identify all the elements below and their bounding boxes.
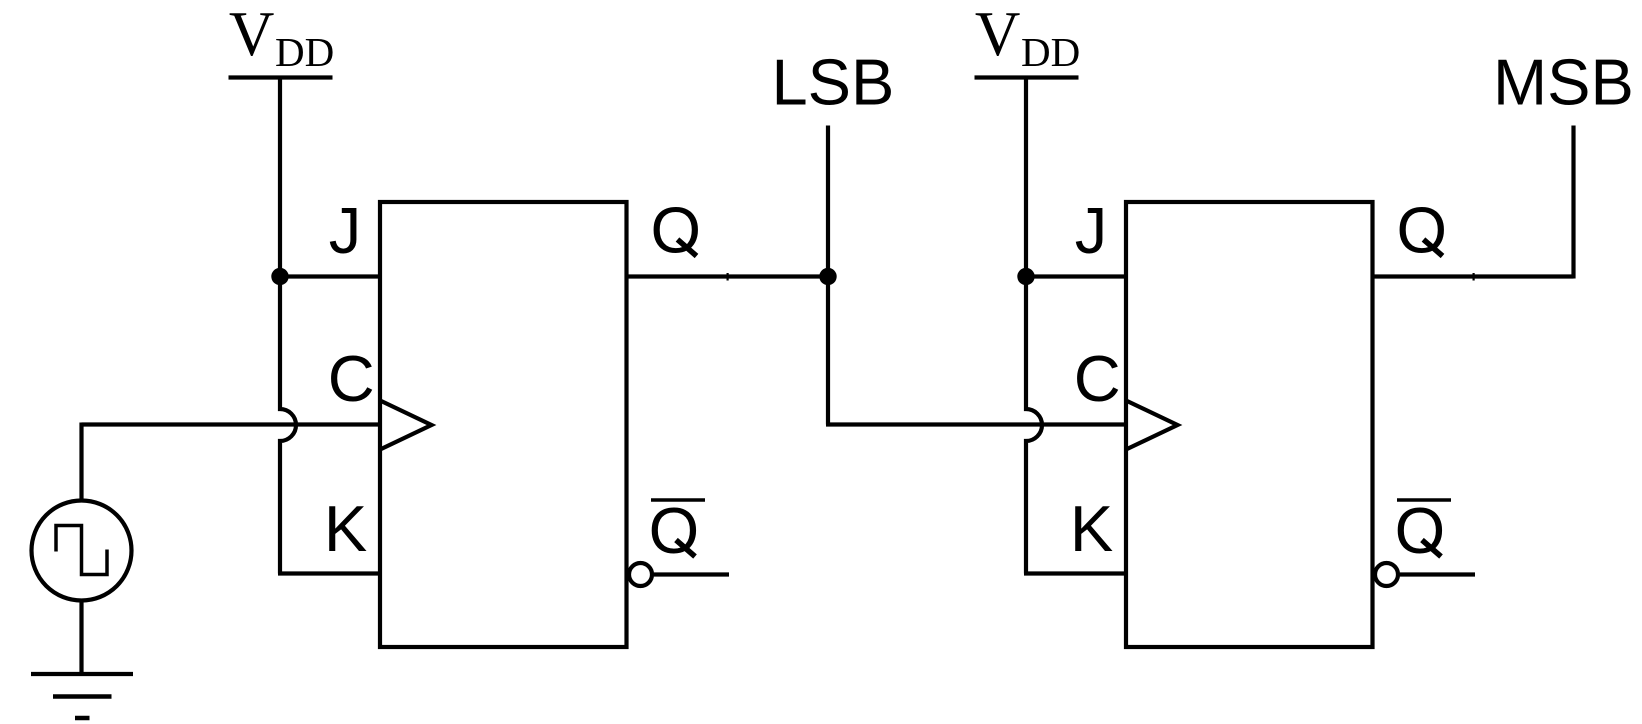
label Qbar (U2) (1395, 494, 1451, 567)
power symbol VDD1 bar (229, 75, 333, 79)
wire clock to U2 (826, 422, 1126, 426)
svg-text:V: V (229, 0, 275, 69)
power symbol VDD1 label (229, 0, 334, 75)
svg-text:K: K (1070, 492, 1113, 565)
svg-text:C: C (1074, 342, 1121, 415)
wire Qbar1 output stub (654, 572, 729, 576)
node B junction dot (J2 tie) (1017, 268, 1034, 285)
node A junction dot (J1 tie) (271, 268, 288, 285)
svg-text:J: J (1075, 194, 1108, 267)
wire K1 input (278, 571, 380, 575)
power symbol VDD2 bar (975, 75, 1079, 79)
wire VDD1 vertical to node A (278, 78, 282, 277)
svg-text:LSB: LSB (772, 46, 895, 119)
wire K2 input (1024, 571, 1126, 575)
bubble Qbar (U1) (629, 563, 652, 586)
clock edge triangle U1 (380, 401, 432, 450)
label Q (U2) (1397, 193, 1448, 266)
wire Q2 output (1373, 274, 1574, 278)
wire clock horizontal to U1 (82, 422, 381, 426)
label Qbar (U1) (649, 494, 705, 567)
flip-flop U2 box (1126, 202, 1373, 647)
svg-text:K: K (324, 492, 367, 565)
wire joint tick on Q2 wire (1473, 273, 1475, 281)
wire VDD2 vertical to node B (1024, 78, 1028, 277)
power symbol VDD2 label (975, 0, 1080, 75)
svg-text:C: C (328, 342, 375, 415)
svg-text:MSB: MSB (1493, 46, 1634, 119)
clock source V1 circle (32, 501, 132, 601)
wire Qbar2 output stub (1400, 572, 1475, 576)
wire Q1 output to LSB node (627, 274, 829, 278)
svg-text:DD: DD (275, 29, 334, 75)
wire MSB vertical (1571, 126, 1575, 279)
clock edge triangle U2 (1126, 401, 1178, 450)
wire clock vertical (79, 423, 83, 501)
wire node B down to K2 with hop over clock wire (1026, 277, 1042, 574)
ground symbol (31, 674, 133, 718)
wire joint tick on Q1 wire (727, 273, 729, 281)
label Q (U1) (651, 193, 702, 266)
node LSB junction dot (819, 268, 836, 285)
svg-text:V: V (975, 0, 1021, 69)
wire node A down to K1 with hop over clock wire (280, 277, 296, 574)
wire clock source to ground (79, 601, 83, 675)
svg-text:J: J (329, 194, 362, 267)
wire J2 input (1026, 274, 1126, 278)
wire LSB node down to clock row (826, 277, 830, 425)
wire J1 input (280, 274, 380, 278)
bubble Qbar (U2) (1375, 563, 1398, 586)
svg-text:DD: DD (1021, 29, 1080, 75)
wire LSB vertical up (826, 126, 830, 277)
flip-flop U1 box (380, 202, 627, 647)
clock source V1 pulse waveform (56, 526, 107, 575)
